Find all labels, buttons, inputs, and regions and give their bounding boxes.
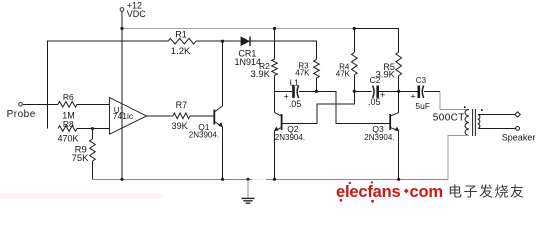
svg-text:Speaker: Speaker bbox=[502, 133, 536, 143]
transformer T1 500CT bbox=[433, 106, 483, 136]
svg-text:470K: 470K bbox=[58, 134, 79, 144]
wire: Q2 base staircase to node B bbox=[282, 91, 354, 123]
resistor R7 bbox=[173, 113, 190, 119]
junction: Q1 collector on top rail bbox=[221, 40, 224, 43]
resistor R3 bbox=[295, 60, 319, 92]
svg-text:.05: .05 bbox=[289, 99, 302, 109]
junction: node C (R5/C2/C3/Q3 collector) bbox=[397, 90, 400, 93]
wire: R2 bottom to C1/Q2 collector node bbox=[274, 76, 276, 113]
wire: secondary bottom to speaker terminal bbox=[478, 127, 515, 129]
ground symbol bbox=[241, 179, 254, 203]
svg-text:R1: R1 bbox=[175, 29, 187, 39]
wire: ground rail bbox=[93, 178, 449, 180]
svg-text:Probe: Probe bbox=[7, 109, 36, 120]
wire: secondary top to speaker terminal bbox=[478, 114, 515, 116]
wire: R8 to U1 -input bbox=[77, 128, 110, 130]
junction: Q3 emitter on ground rail bbox=[397, 178, 400, 181]
wire: R7 to Q1 base bbox=[190, 115, 214, 117]
resistor R5 bbox=[375, 52, 401, 91]
wire: top rail (R8 bias / R1 / CR1 feed) bbox=[48, 41, 169, 128]
junction: U1 V- pin on ground rail bbox=[120, 178, 123, 181]
resistor R6 bbox=[58, 102, 77, 108]
resistor R2 bbox=[250, 29, 277, 81]
+12 VDC supply terminal bbox=[120, 1, 146, 19]
wire: Q1 collector to top rail bbox=[222, 41, 224, 106]
wire: U1 output to R7 bbox=[147, 115, 174, 117]
svg-text:L1: L1 bbox=[290, 78, 299, 87]
junction: node B (R4/C2/Q2 base) bbox=[353, 90, 356, 93]
watermark: elecfans.com logo bbox=[336, 181, 443, 202]
wire: gray +12V distribution rail bbox=[122, 28, 354, 30]
wire: node A to Q3 base (staircase) bbox=[317, 91, 390, 123]
svg-text:500CT: 500CT bbox=[433, 113, 465, 124]
svg-text:.05: .05 bbox=[368, 97, 381, 107]
svg-text:+: + bbox=[410, 91, 415, 101]
svg-text:2N3904.: 2N3904. bbox=[275, 133, 305, 142]
resistor R8 bbox=[58, 126, 77, 132]
svg-text:R8: R8 bbox=[63, 119, 74, 129]
svg-text:com: com bbox=[410, 183, 443, 201]
junction: +12 stem / gray rail bbox=[120, 27, 123, 30]
wire: Q2 emitter to ground rail bbox=[274, 131, 276, 179]
speaker terminal (top) bbox=[515, 112, 520, 117]
decorative: faint pink smear bbox=[0, 193, 162, 199]
svg-text:75K: 75K bbox=[72, 153, 90, 164]
wire: Q3 emitter to ground rail bbox=[398, 131, 400, 179]
svg-text:1N914: 1N914 bbox=[235, 57, 262, 67]
svg-text:2N3904.: 2N3904. bbox=[364, 133, 394, 142]
svg-text:39K: 39K bbox=[172, 121, 188, 131]
svg-text:741ic: 741ic bbox=[113, 111, 134, 121]
junction: Q1 emitter on ground rail bbox=[221, 178, 224, 181]
svg-text:elecfans: elecfans bbox=[336, 183, 400, 201]
wire: R9 bottom to ground rail bbox=[92, 161, 94, 179]
svg-text:5uF: 5uF bbox=[415, 101, 430, 111]
wire: C3 to transformer primary top bbox=[424, 90, 440, 92]
wire: +12 rail to R5 top bbox=[354, 29, 398, 53]
speaker terminal (bottom) bbox=[516, 126, 520, 130]
svg-text:1.2K: 1.2K bbox=[171, 46, 191, 57]
resistor R4 bbox=[336, 29, 357, 92]
wire: Q1 emitter to ground rail bbox=[222, 127, 224, 179]
transistor Q2 2N3904 bbox=[274, 112, 305, 142]
wire: +12 VDC stem down through U1 to ground rail bbox=[121, 12, 123, 180]
junction: R4 top on gray rail bbox=[353, 27, 356, 30]
svg-text:VDC: VDC bbox=[127, 9, 147, 19]
wire: R1 to CR1 anode bbox=[196, 40, 241, 42]
wire: Q3 collector to node C bbox=[398, 91, 400, 112]
svg-text:C3: C3 bbox=[416, 76, 427, 85]
junction: Q2 emitter on ground rail bbox=[273, 178, 276, 181]
capacitor C3 5uF bbox=[399, 76, 430, 111]
transistor Q1 2N3904 bbox=[189, 106, 223, 140]
junction: node A (C1/R3) bbox=[315, 90, 318, 93]
svg-text:R7: R7 bbox=[176, 100, 188, 110]
resistor R1 bbox=[168, 38, 196, 44]
svg-text:电子发烧友: 电子发烧友 bbox=[448, 183, 526, 199]
capacitor C1 .05 bbox=[275, 78, 317, 109]
transistor Q3 2N3904 bbox=[364, 112, 399, 142]
capacitor C2 .05 bbox=[354, 75, 398, 107]
wire: probe to R6 bbox=[23, 103, 58, 105]
svg-text:R6: R6 bbox=[63, 92, 74, 102]
junction: R2 top on gray rail bbox=[273, 27, 276, 30]
resistor R9 bbox=[72, 129, 96, 164]
wire: transformer primary bottom to ground rail bbox=[448, 136, 469, 180]
junction: ground symbol stem bbox=[246, 178, 249, 181]
svg-text:2N3904.: 2N3904. bbox=[189, 131, 219, 140]
svg-text:3.9K: 3.9K bbox=[250, 69, 270, 80]
wire: CR1 cathode to R3 top bbox=[250, 41, 317, 59]
op-amp U1 741 bbox=[110, 98, 147, 135]
svg-text:3.9K: 3.9K bbox=[375, 69, 395, 80]
wire: R6 to U1 +input bbox=[77, 103, 110, 105]
svg-text:47K: 47K bbox=[336, 70, 351, 79]
svg-text:47K: 47K bbox=[295, 68, 310, 77]
diode CR1 1N914 bbox=[235, 36, 262, 67]
probe input terminal bbox=[7, 103, 36, 121]
junction: R8/R9 node bbox=[91, 127, 94, 130]
